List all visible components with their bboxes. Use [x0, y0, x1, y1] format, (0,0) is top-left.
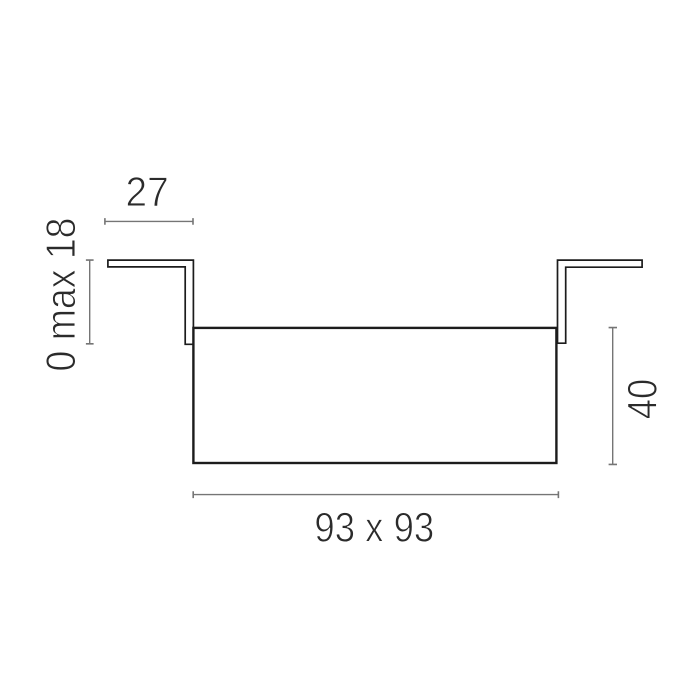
svg-text:0 max 18: 0 max 18: [37, 218, 84, 372]
svg-text:93 x 93: 93 x 93: [314, 503, 434, 550]
recessed housing box: [193, 328, 556, 463]
right trim flange (mirrored L-profile with clamp foot): [558, 260, 643, 343]
left trim flange (L-profile with clamp foot): [108, 260, 193, 344]
svg-text:40: 40: [619, 379, 666, 420]
dimension line 93 x 93 (bottom, horizontal): [193, 491, 558, 498]
svg-text:27: 27: [126, 168, 169, 215]
dimension line 40 (right, vertical): [609, 328, 617, 465]
dimension line 27 (top, horizontal): [105, 218, 193, 225]
dimension line 0 max 18 (left, vertical): [86, 260, 94, 344]
